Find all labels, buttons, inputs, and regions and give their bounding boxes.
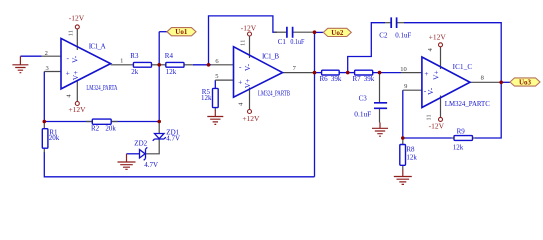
svg-text:0.1uF: 0.1uF [290, 38, 304, 46]
svg-text:-12V: -12V [69, 13, 85, 22]
svg-text:-12V: -12V [241, 24, 257, 33]
svg-text:20k: 20k [105, 125, 116, 133]
svg-text:12k: 12k [201, 94, 212, 102]
svg-text:2: 2 [45, 50, 48, 57]
svg-text:V+: V+ [431, 70, 440, 80]
svg-text:+: + [238, 77, 242, 86]
svg-text:39k: 39k [364, 75, 375, 83]
svg-text:12k: 12k [406, 154, 417, 162]
svg-text:R4: R4 [165, 52, 174, 60]
svg-text:R6: R6 [320, 75, 329, 83]
svg-text:+: + [66, 69, 70, 78]
svg-text:4.7V: 4.7V [144, 161, 158, 169]
svg-text:Uo1: Uo1 [175, 28, 188, 36]
svg-text:V-: V- [243, 63, 252, 71]
svg-text:1: 1 [120, 58, 123, 65]
svg-text:IC1_C: IC1_C [453, 63, 473, 71]
svg-text:ZD2: ZD2 [134, 140, 147, 148]
svg-text:0.1uF: 0.1uF [354, 110, 371, 118]
svg-text:V+: V+ [71, 71, 80, 81]
svg-text:8: 8 [481, 74, 484, 81]
svg-text:11: 11 [239, 40, 246, 46]
svg-text:11: 11 [426, 114, 433, 120]
svg-text:20k: 20k [49, 134, 60, 142]
svg-text:-12V: -12V [429, 121, 445, 130]
svg-text:+: + [424, 69, 428, 78]
svg-text:0.1uF: 0.1uF [395, 31, 411, 39]
svg-text:C3: C3 [359, 95, 368, 103]
svg-text:V+: V+ [243, 79, 252, 89]
svg-text:R2: R2 [91, 125, 100, 133]
svg-text:C2: C2 [379, 31, 388, 39]
svg-text:+12V: +12V [242, 114, 260, 123]
svg-text:4.7V: 4.7V [166, 135, 180, 143]
svg-text:5: 5 [215, 73, 218, 80]
svg-text:12k: 12k [453, 144, 464, 152]
svg-text:LM324_PARTC: LM324_PARTC [445, 100, 490, 108]
svg-text:LM324_PARTB: LM324_PARTB [258, 89, 290, 97]
svg-text:R9: R9 [457, 128, 466, 136]
svg-text:39k: 39k [331, 75, 342, 83]
svg-text:10: 10 [400, 66, 407, 73]
svg-text:LM324_PARTA: LM324_PARTA [86, 84, 117, 92]
svg-text:R7: R7 [353, 75, 362, 83]
svg-text:R8: R8 [406, 146, 415, 154]
svg-text:C1: C1 [278, 38, 287, 46]
svg-text:+12V: +12V [68, 105, 86, 114]
svg-text:V-: V- [426, 87, 435, 95]
svg-text:3: 3 [45, 65, 48, 72]
svg-text:+12V: +12V [429, 33, 447, 42]
svg-text:Uo2: Uo2 [331, 29, 344, 37]
svg-text:V-: V- [71, 55, 80, 63]
svg-text:9: 9 [404, 83, 407, 90]
svg-text:R3: R3 [130, 52, 139, 60]
svg-text:2k: 2k [131, 68, 139, 76]
svg-text:11: 11 [67, 30, 74, 36]
svg-text:12k: 12k [166, 68, 177, 76]
svg-text:Uo3: Uo3 [519, 78, 532, 86]
svg-text:IC1_B: IC1_B [262, 53, 279, 61]
svg-text:IC1_A: IC1_A [89, 43, 106, 51]
